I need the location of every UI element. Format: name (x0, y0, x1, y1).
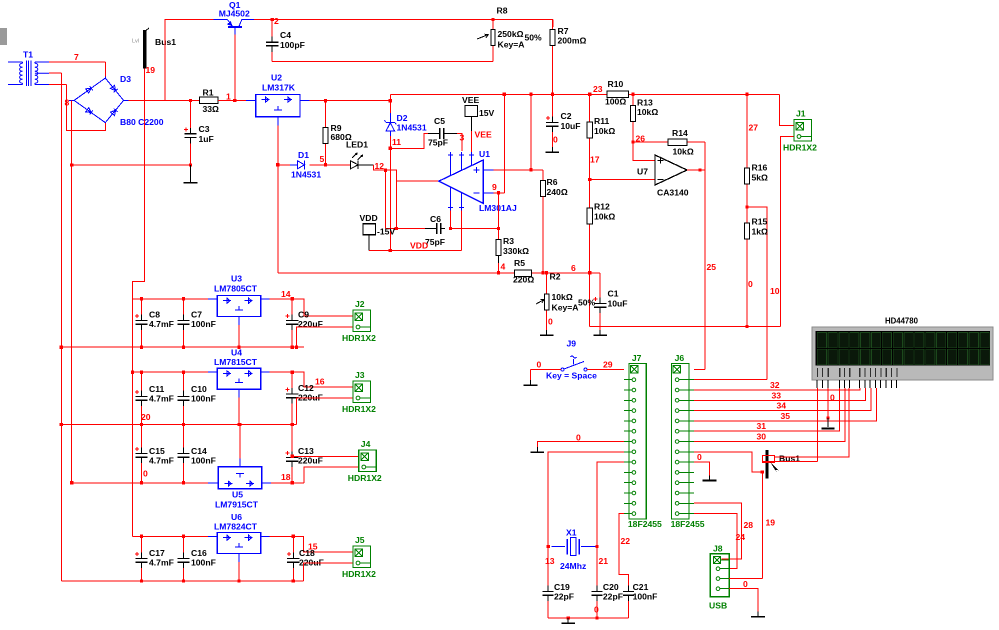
svg-text:8: 8 (65, 98, 70, 108)
wire net11 run (390, 133, 428, 148)
wire net6 (547, 272, 601, 274)
bus entry box (763, 455, 775, 462)
svg-text:U2: U2 (271, 73, 282, 83)
svg-text:VEE: VEE (475, 130, 492, 140)
LED LED1 (351, 153, 363, 169)
svg-text:100pF: 100pF (280, 40, 305, 50)
op-amp U7 (655, 155, 687, 185)
capacitor C1 (594, 297, 607, 330)
wire D2 rail drop (389, 94, 391, 113)
junction C12 bot (291, 423, 294, 426)
power VDD box (363, 224, 376, 235)
capacitor C17 (135, 536, 148, 581)
junction row1 296 (295, 346, 298, 349)
svg-text:R3: R3 (503, 236, 514, 246)
junction C14 top (182, 423, 185, 426)
resistor R3 (496, 239, 501, 273)
junction rail R11 (588, 93, 591, 96)
junction net6 r12 (588, 271, 591, 274)
svg-text:C19: C19 (554, 582, 570, 592)
svg-text:25: 25 (707, 262, 717, 272)
wire bridge to R1 (129, 99, 200, 101)
junction net12 riser (384, 169, 387, 172)
U6 right pin (261, 535, 270, 537)
svg-text:J3: J3 (355, 370, 365, 380)
svg-text:LM301AJ: LM301AJ (479, 203, 517, 213)
wire node1 up to Q1 (165, 20, 213, 101)
connector J2 (353, 310, 371, 332)
wire lcd gnd stem (827, 418, 829, 427)
svg-text:C8: C8 (149, 310, 160, 320)
wire net27 drop (746, 94, 748, 166)
resistor R10 (607, 91, 629, 97)
wire net9 riser x504 (503, 94, 505, 193)
wire C3 gnd stem (190, 165, 192, 177)
svg-text:C15: C15 (149, 446, 165, 456)
wire R7 to rail (551, 48, 553, 95)
wire R1 to U2 (218, 99, 246, 101)
junction c6 left (395, 227, 398, 230)
svg-text:0: 0 (594, 605, 599, 615)
wire lcd pin3 drop (827, 388, 829, 418)
svg-text:D1: D1 (298, 150, 309, 160)
svg-text:HDR1X2: HDR1X2 (342, 569, 376, 579)
U3 gnd pin (238, 317, 240, 326)
pot R2 arrow (536, 299, 544, 304)
ground R2 (540, 330, 554, 335)
wire C4 bottom run (272, 60, 493, 62)
svg-text:HDR1X2: HDR1X2 (783, 143, 817, 153)
U6 gnd pin (238, 554, 240, 563)
svg-text:VDD: VDD (360, 213, 378, 223)
op-amp U1 (439, 152, 493, 210)
svg-text:LM7915CT: LM7915CT (215, 500, 259, 510)
junction row2 rail left (60, 423, 63, 426)
svg-text:C6: C6 (430, 214, 441, 224)
capacitor C12 (286, 372, 299, 424)
wire net35 row (694, 388, 877, 421)
svg-text:10uF: 10uF (608, 299, 628, 309)
left rail x72 (71, 100, 73, 482)
junction bus node (761, 470, 764, 473)
svg-text:22pF: 22pF (554, 592, 574, 602)
junction C7 bot (182, 346, 185, 349)
wire net24 (694, 514, 737, 569)
ground J7 (531, 447, 545, 452)
U2 adj pin (277, 117, 279, 126)
svg-text:R14: R14 (672, 128, 688, 138)
svg-text:18: 18 (281, 472, 291, 482)
wire J1 pin2 (781, 137, 795, 327)
junction vdd d2 (389, 249, 392, 252)
svg-text:21: 21 (599, 556, 609, 566)
wire net19 bus drop (133, 69, 145, 299)
svg-text:11: 11 (392, 137, 401, 147)
junction C17 top (140, 535, 143, 538)
capacitor C4 (266, 20, 278, 62)
junction R8 top (491, 18, 494, 21)
svg-text:Key=A: Key=A (498, 40, 525, 50)
svg-text:Key = Space: Key = Space (546, 371, 597, 381)
junction x1 right (595, 545, 598, 548)
junction net9 (497, 191, 500, 194)
svg-text:100nF: 100nF (191, 319, 216, 329)
svg-text:250kΩ: 250kΩ (498, 29, 524, 39)
wire xtal gnd rail (548, 617, 629, 619)
svg-text:24: 24 (736, 532, 746, 542)
svg-text:B80 C2200: B80 C2200 (120, 117, 164, 127)
svg-text:C20: C20 (603, 582, 619, 592)
svg-text:R7: R7 (558, 26, 569, 36)
connector J8 USB (710, 554, 729, 597)
svg-text:Bus1: Bus1 (155, 37, 176, 47)
junction rail R7 (551, 93, 554, 96)
junction C6 pin riser (449, 227, 452, 230)
wire rail to J1 (779, 94, 794, 125)
svg-text:17: 17 (590, 155, 600, 165)
svg-text:1N4531: 1N4531 (291, 170, 321, 180)
wire J6 pin9 to bus (694, 452, 762, 472)
svg-text:0: 0 (553, 135, 558, 145)
wire J6 pin10 gnd (694, 462, 710, 475)
regulator U4 (217, 368, 261, 389)
svg-text:9: 9 (492, 182, 497, 192)
U6 left pin (208, 535, 217, 537)
capacitor C18 (287, 536, 300, 581)
power VEE box (465, 106, 478, 117)
svg-text:0: 0 (748, 279, 753, 289)
capacitor C14 (177, 424, 189, 482)
svg-text:0: 0 (537, 360, 542, 370)
U2 left pin (246, 100, 256, 102)
svg-text:3: 3 (460, 133, 465, 143)
resistor R16 (745, 166, 750, 207)
svg-text:CA3140: CA3140 (657, 188, 689, 198)
svg-text:5: 5 (320, 154, 325, 164)
wire net28 (694, 503, 741, 559)
pot R8 arrow (477, 34, 489, 39)
bus cursor arrow (771, 463, 780, 474)
svg-text:14: 14 (281, 289, 291, 299)
junction minus node (588, 178, 591, 181)
junction rail 27 (746, 93, 749, 96)
wire to bridge bottom (66, 85, 105, 131)
svg-text:22: 22 (621, 536, 631, 546)
svg-text:16: 16 (315, 377, 325, 387)
junction C12 top (291, 371, 294, 374)
svg-text:R1: R1 (203, 88, 214, 98)
junction rail x531 (529, 93, 532, 96)
svg-text:HD44780: HD44780 (885, 317, 919, 326)
wire R16 bottom (746, 186, 748, 220)
svg-text:10kΩ: 10kΩ (594, 126, 615, 136)
U3 left pin (208, 298, 217, 300)
transformer T1 (8, 61, 49, 87)
junction C10 top (182, 371, 185, 374)
resistor R13 (631, 104, 636, 161)
svg-text:22pF: 22pF (603, 592, 623, 602)
svg-text:20: 20 (141, 412, 151, 422)
wire R13 to plus (633, 123, 655, 161)
wire U2 adj down (277, 126, 279, 274)
junction rail R10r (632, 93, 635, 96)
wire top rail y19 (254, 19, 553, 21)
svg-text:1uF: 1uF (199, 134, 214, 144)
connector J3 (353, 381, 371, 403)
svg-text:R13: R13 (637, 98, 653, 108)
svg-text:26: 26 (636, 134, 646, 144)
junction U7 out (698, 168, 701, 171)
wire R3 bottom black (498, 256, 500, 263)
wire net30 row (694, 388, 845, 442)
wire net13 col (548, 452, 624, 586)
wire branch to x769 (747, 207, 767, 380)
svg-text:J2: J2 (355, 299, 365, 309)
svg-text:C18: C18 (299, 548, 315, 558)
wire net10 run (590, 325, 781, 327)
U5 gnd pin (239, 459, 241, 467)
ground USB (751, 612, 765, 617)
svg-text:0: 0 (548, 317, 553, 327)
svg-text:12: 12 (375, 161, 385, 171)
wire rail riser x531 (530, 94, 532, 170)
junction C9 bot (291, 346, 294, 349)
svg-text:C3: C3 (199, 124, 210, 134)
wire row3 input (72, 482, 208, 484)
svg-text:Key=A: Key=A (552, 303, 579, 313)
svg-text:10kΩ: 10kΩ (594, 212, 615, 222)
resistor R1 (200, 97, 247, 103)
junction C13 tap (291, 455, 294, 458)
wire net22 col (619, 514, 629, 586)
U4 left pin (208, 371, 217, 373)
wire row2 out (270, 372, 353, 387)
junction C7 top (182, 297, 185, 300)
capacitor C20 (592, 586, 603, 619)
wire R6 top (542, 170, 544, 181)
wire bus right vss (763, 461, 817, 463)
svg-text:USB: USB (709, 601, 727, 611)
wire R7 top (552, 20, 554, 27)
resistor R6 (540, 181, 545, 273)
svg-text:1N4531: 1N4531 (397, 123, 427, 133)
junction net11 (389, 147, 392, 150)
capacitor C8 (135, 299, 148, 347)
resistor R7 (550, 20, 555, 95)
wire net7 top (49, 61, 105, 63)
svg-text:100nF: 100nF (191, 558, 216, 568)
junction left rail y165 (70, 164, 73, 167)
svg-text:J7: J7 (632, 353, 642, 363)
svg-text:50%: 50% (525, 33, 543, 43)
wire R3 bottom red (498, 263, 500, 273)
svg-text:C7: C7 (191, 310, 202, 320)
wire row1 gnd rail (61, 346, 304, 348)
junction U3 gnd (237, 346, 240, 349)
wire row3 j4pin2 (304, 467, 359, 483)
svg-text:220uF: 220uF (298, 456, 323, 466)
transistor Q1 (213, 20, 255, 35)
header J6 (672, 364, 694, 520)
svg-text:D3: D3 (120, 74, 131, 84)
capacitor C11 (135, 372, 148, 424)
resistor R15 (745, 220, 750, 326)
capacitor C6 (425, 223, 445, 234)
svg-text:C2: C2 (561, 111, 572, 121)
ground LCD (822, 428, 835, 430)
svg-text:1kΩ: 1kΩ (752, 227, 769, 237)
wire net19 drop (761, 472, 763, 579)
svg-text:4.7mF: 4.7mF (149, 394, 174, 404)
junction D1 node (276, 163, 279, 166)
ui fragment (0, 28, 7, 45)
svg-text:C10: C10 (191, 384, 207, 394)
svg-text:Lvl: Lvl (132, 39, 139, 45)
junction C15 top (140, 423, 143, 426)
svg-text:200mΩ: 200mΩ (558, 36, 587, 46)
svg-text:5kΩ: 5kΩ (752, 173, 769, 183)
ground C3 (184, 178, 198, 183)
svg-text:J1: J1 (796, 109, 806, 119)
key switch J9 (561, 356, 587, 371)
pot R8 (491, 20, 495, 48)
capacitor C21 (623, 586, 634, 619)
wire row1 j2pin2 (297, 327, 353, 347)
wire J9 gnd stem (530, 370, 532, 380)
wire VEE stem red (471, 131, 473, 152)
junction C9 top (291, 297, 294, 300)
ground J6 (703, 475, 717, 480)
junction U5 gnd (238, 423, 241, 426)
svg-text:15V: 15V (479, 108, 495, 118)
svg-text:R8: R8 (497, 6, 508, 16)
junction xtal rail (595, 617, 598, 620)
capacitor C15 (135, 424, 148, 482)
svg-text:33: 33 (772, 390, 782, 400)
svg-text:220Ω: 220Ω (513, 275, 534, 285)
wire J6 pin2 (694, 379, 767, 381)
wire net25 (704, 142, 706, 369)
junction net4 (497, 271, 500, 274)
wire row4 j5pin2 (304, 563, 353, 581)
svg-text:50%: 50% (578, 298, 596, 308)
svg-text:HDR1X2: HDR1X2 (342, 404, 376, 414)
svg-text:33Ω: 33Ω (203, 104, 220, 114)
svg-text:0: 0 (143, 469, 148, 479)
junction C3 top (189, 99, 192, 102)
wire adj feedback (278, 272, 515, 274)
svg-text:R15: R15 (752, 217, 768, 227)
wire bus right E (775, 388, 849, 457)
svg-text:240Ω: 240Ω (547, 187, 568, 197)
wire U5 gnd (239, 424, 241, 458)
svg-text:10kΩ: 10kΩ (637, 107, 658, 117)
wire row4 input (133, 535, 208, 537)
connector J1 (794, 120, 812, 142)
left rail x61 (60, 73, 62, 581)
junction lcd gnd (826, 416, 829, 419)
junction net26 (632, 141, 635, 144)
wire U3 gnd (238, 325, 240, 347)
header J7 (624, 364, 646, 520)
junction R9 bottom (324, 163, 327, 166)
wire U4 gnd (238, 398, 240, 425)
capacitor C7 (177, 299, 189, 347)
junction C3 bottom (189, 164, 192, 167)
wire row1 input (133, 298, 208, 300)
svg-text:29: 29 (603, 359, 613, 369)
junction row1 rail left (60, 346, 63, 349)
svg-text:C11: C11 (149, 384, 165, 394)
wire R8 bottom (492, 48, 494, 62)
wire row3 j4pin1 (292, 455, 359, 457)
capacitor C10 (177, 372, 189, 424)
junction C13 bot (291, 481, 294, 484)
bridge rectifier D3 (69, 77, 129, 123)
svg-text:10: 10 (770, 286, 780, 296)
svg-text:32: 32 (770, 380, 780, 390)
svg-text:100nF: 100nF (191, 394, 216, 404)
wire D1 to LED1 (310, 164, 351, 166)
wire C5 to pin (457, 133, 462, 151)
junction Q1 collector (233, 99, 236, 102)
svg-text:MJ4502: MJ4502 (219, 9, 250, 19)
svg-text:R5: R5 (514, 258, 525, 268)
svg-text:HDR1X2: HDR1X2 (348, 473, 382, 483)
regulator U2 (256, 94, 300, 116)
svg-text:0: 0 (697, 452, 702, 462)
junction C11 bot (140, 423, 143, 426)
svg-text:C13: C13 (298, 446, 314, 456)
svg-text:4.7mF: 4.7mF (149, 456, 174, 466)
junction C15 bot (140, 481, 143, 484)
svg-text:0: 0 (576, 433, 581, 443)
connector J5 (353, 546, 371, 568)
wire bottom rail (61, 580, 303, 582)
svg-text:U6: U6 (231, 512, 242, 522)
junction U4 gnd (237, 423, 240, 426)
svg-text:U3: U3 (231, 274, 242, 284)
junction C17 bot (140, 579, 143, 582)
svg-text:T1: T1 (23, 50, 33, 60)
ground C1 (593, 330, 607, 335)
svg-text:7: 7 (74, 52, 79, 62)
wire R13 top (632, 94, 634, 104)
wire C6 riser (450, 210, 452, 228)
junction r16 r15 node (746, 205, 749, 208)
connector J4 (359, 450, 377, 472)
regulator U5 (218, 467, 262, 489)
crystal X1 (551, 538, 597, 556)
svg-text:18F2455: 18F2455 (671, 519, 705, 529)
svg-text:HDR1X2: HDR1X2 (342, 333, 376, 343)
svg-text:100nF: 100nF (633, 592, 658, 602)
svg-text:LM7824CT: LM7824CT (214, 522, 258, 532)
junction C18 top (292, 535, 295, 538)
wire U7 out (687, 169, 705, 171)
svg-text:VEE: VEE (462, 95, 479, 105)
junction C16 top (182, 535, 185, 538)
wire out drop x396 (395, 181, 397, 229)
junction plus riser (529, 168, 532, 171)
wire U6 gnd (238, 562, 240, 581)
svg-text:31: 31 (757, 421, 767, 431)
U2 right pin (300, 100, 310, 102)
wire J8 pin4 gnd (729, 589, 758, 612)
svg-text:75pF: 75pF (428, 138, 448, 148)
wire Q1 base drop (234, 35, 236, 101)
junction C18 bot (292, 579, 295, 582)
